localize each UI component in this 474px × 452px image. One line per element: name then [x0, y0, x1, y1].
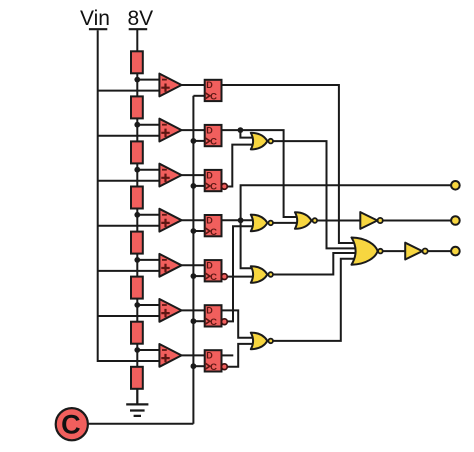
op-amp comparator U3 [159, 164, 181, 187]
wire FF5 Qbar to NOR G3 input 2 [227, 276, 256, 278]
wire NOR G5 output to inverter A [316, 220, 360, 222]
node 8V ladder wire [136, 29, 138, 404]
node FF6 inverted output bubble [222, 319, 228, 325]
svg-text:C: C [210, 137, 217, 148]
node clock rail junction row 4 [191, 228, 197, 234]
wire FF4 Q to NOR G2 input 1 [222, 219, 257, 221]
op-amp comparator U4 [159, 209, 181, 232]
node ladder tap 7 junction [134, 347, 140, 353]
node clock rail junction row 6 [191, 318, 197, 324]
svg-text:D: D [206, 170, 213, 180]
wire clock branch to FF2 [193, 140, 204, 142]
wire Vin to comparator 2 plus input [98, 135, 160, 137]
svg-text:D: D [206, 351, 213, 361]
node output terminal 3 [451, 247, 460, 256]
wire Vin to comparator 6 plus input [98, 315, 160, 317]
wire comparator 6 output to FF6 D input [182, 309, 205, 311]
D flip-flop FF7 [205, 350, 222, 373]
svg-text:8V: 8V [128, 7, 154, 30]
wire Vin to comparator 3 plus input [98, 180, 160, 182]
node ladder tap 1 junction [134, 77, 140, 83]
D flip-flop FF3 [205, 170, 222, 193]
wire clock branch to FF4 [193, 230, 204, 232]
node 8V terminal [128, 7, 154, 30]
op-amp comparator U7 [159, 344, 181, 367]
wire FF4 Q branch to NOR G3 input 1 [241, 220, 256, 268]
wire ladder tap 7 to comparator 7 minus input [137, 349, 159, 351]
node clock rail junction row 7 [191, 363, 197, 369]
wire FF7 Q stub [222, 354, 234, 356]
node ladder tap 4 junction [134, 212, 140, 218]
wire clock branch to FF6 [193, 320, 204, 322]
node Vin terminal [80, 7, 110, 30]
wire FF7 Qbar to NOR G4 input 2 [227, 344, 256, 367]
svg-text:D: D [206, 306, 213, 316]
resistor R3 [131, 141, 143, 163]
resistor R2 [131, 96, 143, 118]
NOR gate G3 [251, 266, 273, 283]
svg-text:C: C [210, 362, 217, 373]
node clock rail wire [192, 96, 194, 424]
node clock rail junction row 3 [191, 183, 197, 189]
4-input NOR gate G6 [352, 238, 383, 265]
wire ladder bottom to ground [136, 389, 138, 405]
wire inverter A output to terminal 2 [383, 220, 451, 222]
node C clock terminal [56, 408, 88, 440]
svg-text:D: D [206, 261, 213, 271]
wire comparator 7 output to FF7 D input [182, 354, 205, 356]
node Vin rail wire [98, 30, 160, 361]
resistor R5 [131, 232, 143, 254]
wire NOR G1 output to 4-input NOR input 2 [272, 141, 356, 248]
wire FF4 Q branch to output terminal 1 [241, 185, 452, 220]
NOR gate G5 [295, 212, 317, 229]
ground [126, 404, 148, 416]
wire FF6 Q to NOR G4 input 1 [222, 310, 257, 337]
wire NOR G4 output to 4-input NOR input 4 [272, 259, 356, 341]
node clock rail junction row 5 [191, 273, 197, 279]
node FF4 Q branch junction [238, 217, 244, 223]
resistor R1 [131, 51, 143, 73]
svg-text:C: C [61, 410, 81, 440]
svg-text:C: C [210, 92, 217, 103]
D flip-flop FF6 [205, 305, 222, 328]
svg-text:C: C [210, 272, 217, 283]
resistor R8 [131, 367, 143, 389]
wire clock branch to FF5 [193, 275, 204, 277]
wire NOR G3 output to 4-input NOR input 3 [272, 253, 356, 275]
NOR gate G2 [251, 215, 273, 232]
wire C terminal to clock rail [87, 423, 193, 425]
node FF3 inverted output bubble [222, 184, 228, 190]
wire ladder tap 4 to comparator 4 minus input [137, 214, 159, 216]
wire NOR G2 output to NOR G5 input 2 [272, 222, 299, 224]
wire ladder tap 6 to comparator 6 minus input [137, 304, 159, 306]
node ladder tap 3 junction [134, 167, 140, 173]
svg-text:Vin: Vin [80, 7, 110, 30]
wire ladder tap 5 to comparator 5 minus input [137, 259, 159, 261]
wire Vin to comparator 1 plus input [98, 90, 160, 92]
inverter A [360, 212, 383, 229]
NOR gate G4 [251, 333, 273, 350]
wire ladder tap 1 to comparator 1 minus input [137, 79, 159, 81]
NOR gate G1 [251, 133, 273, 150]
wire clock branch to FF1 [193, 95, 204, 97]
wire FF2 Q to NOR G5 input 1 [222, 130, 298, 217]
node ladder tap 2 junction [134, 122, 140, 128]
node FF2 Q branch junction [238, 127, 244, 133]
wire comparator 2 output to FF2 D input [182, 129, 205, 131]
svg-text:D: D [206, 80, 213, 90]
node output terminal 1 [451, 181, 460, 190]
node ladder tap 5 junction [134, 257, 140, 263]
wire comparator 5 output to FF5 D input [182, 264, 205, 266]
wire ladder tap 3 to comparator 3 minus input [137, 169, 159, 171]
wire clock branch to FF7 [193, 365, 204, 367]
D flip-flop FF5 [205, 260, 222, 283]
wire inverter B output to terminal 3 [428, 250, 451, 252]
wire Vin to comparator 4 plus input [98, 225, 160, 227]
wire FF1 Q to 4-input NOR input 1 [222, 85, 357, 243]
node output terminal 2 [451, 216, 460, 225]
op-amp comparator U6 [159, 299, 181, 322]
op-amp comparator U2 [159, 119, 181, 142]
wire Vin to comparator 5 plus input [98, 270, 160, 272]
wire comparator 3 output to FF3 D input [182, 174, 205, 176]
wire FF3 Qbar to NOR G1 input 2 [227, 145, 256, 187]
wire FF6 Qbar to NOR G2 input 2 [227, 226, 256, 321]
wire ladder tap 2 to comparator 2 minus input [137, 124, 159, 126]
op-amp comparator U5 [159, 254, 181, 277]
resistor R4 [131, 187, 143, 209]
D flip-flop FF4 [205, 215, 222, 238]
svg-text:C: C [210, 317, 217, 328]
wire clock branch to FF3 [193, 185, 204, 187]
wire FF2 Q branch to NOR G1 input 1 [240, 130, 256, 138]
D flip-flop FF2 [205, 125, 222, 148]
op-amp comparator U1 [159, 74, 181, 97]
D flip-flop FF1 [205, 80, 222, 103]
node FF5 inverted output bubble [222, 274, 228, 280]
inverter B [405, 243, 428, 260]
wire 4-input NOR output to inverter B [383, 250, 405, 252]
wire comparator 4 output to FF4 D input [182, 219, 205, 221]
svg-text:D: D [206, 125, 213, 135]
node clock rail junction row 2 [191, 138, 197, 144]
resistor R7 [131, 322, 143, 344]
svg-text:D: D [206, 215, 213, 225]
wire comparator 1 output to FF1 D input [182, 84, 205, 86]
svg-text:C: C [210, 182, 217, 193]
node FF7 inverted output bubble [222, 364, 228, 370]
svg-text:C: C [210, 227, 217, 238]
node ladder tap 6 junction [134, 302, 140, 308]
resistor R6 [131, 277, 143, 299]
